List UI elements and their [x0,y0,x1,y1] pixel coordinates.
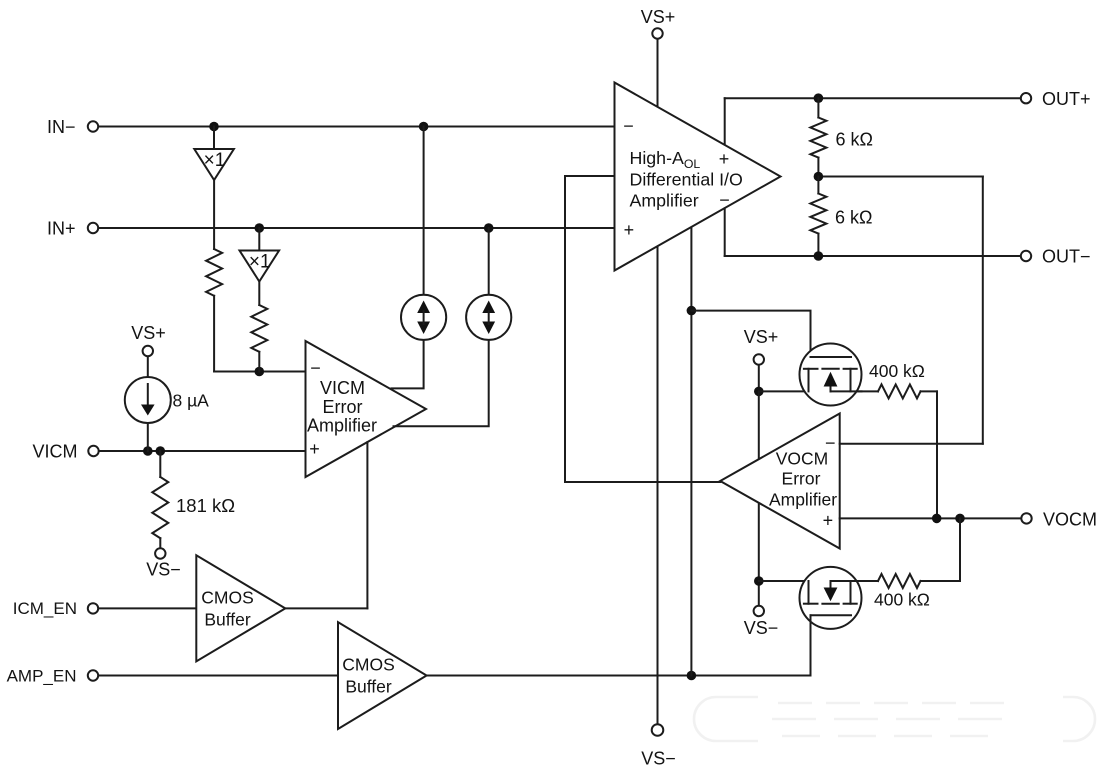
node dot IN- to current source I1 [419,122,429,132]
svg-text:IN−: IN− [47,117,76,137]
op-amp U3 VOCM Error Amplifier [720,414,840,549]
wire M2 source-drain [759,580,878,582]
wire R400a down to VOCM node [936,391,938,518]
svg-text:181 kΩ: 181 kΩ [176,495,235,516]
wire VS- lead vocm [758,581,760,606]
wire OUT- from amp [724,208,726,256]
node dot OUT- [814,251,824,261]
svg-text:ICM_EN: ICM_EN [13,599,77,618]
svg-text:Buffer: Buffer [345,677,392,697]
svg-text:CMOS: CMOS [201,588,254,608]
svg-text:−: − [623,116,634,136]
svg-text:Amplifier: Amplifier [769,490,837,510]
svg-text:400 kΩ: 400 kΩ [869,361,925,381]
svg-text:Error: Error [782,469,821,489]
wire vocm rail vertical (passes behind U3) [758,391,760,581]
svg-text:VS+: VS+ [131,323,166,343]
terminal VS+ mid [143,346,153,356]
node dot VS- / M2 wire [754,576,764,586]
wire mid node to VOCM minus [818,176,982,178]
resistor RS1 [206,249,222,296]
node dot IN- to x1 buffer [209,122,219,132]
svg-text:Buffer: Buffer [204,610,251,630]
node dot IN+ to current source I2 [484,223,494,233]
svg-text:+: + [309,439,320,459]
wire U2 out upper to I1 [392,340,424,388]
wire enable vertical [690,227,692,675]
wire I3 to VICM node [147,423,149,451]
wire gate link top mosfet [691,311,810,357]
wire VOCM feedback to main amp [565,176,720,482]
svg-text:400 kΩ: 400 kΩ [874,590,930,610]
op-amp U1 High-AOL amplifier [615,83,781,271]
resistor RS2 [251,305,267,352]
svg-text:Differential I/O: Differential I/O [630,170,743,190]
svg-text:6 kΩ: 6 kΩ [836,130,873,150]
svg-text:VS+: VS+ [744,327,779,347]
svg-text:Error: Error [323,397,363,417]
svg-text:−: − [310,358,321,378]
node dot VS+ / M1 wire [754,387,764,397]
wire VS+ lead to I3 [147,357,149,378]
wire summing node horizontal [214,371,305,373]
node dot IN+ to x1 buffer2 [254,223,264,233]
terminal ICM_EN [88,603,98,613]
svg-text:OUT−: OUT− [1042,247,1091,267]
wire VS+ lead vocm [758,365,760,391]
svg-text:OUT+: OUT+ [1042,89,1091,109]
svg-text:−: − [719,190,730,210]
svg-text:6 kΩ: 6 kΩ [835,208,872,228]
svg-text:+: + [719,149,730,169]
wire CMOS2 output to gate line [427,675,811,677]
node dot enable junction [687,671,697,681]
node dot VOCM b [955,514,965,524]
resistor RF2 6k [817,177,819,194]
buffer U5 CMOS Buffer (AMP_EN) [98,675,338,677]
node dot mid [814,172,824,182]
wire U3 minus input [840,443,983,445]
watermark faint [694,697,1095,741]
wire U3 plus input / VOCM net [840,517,1021,519]
terminal VS+ vocm [754,354,764,364]
wire RS1 to summing node [213,296,215,372]
wire RS2 to summing node [258,352,260,372]
terminal AMP_EN [88,670,98,680]
wire U2 enable from CMOS buffer1 [366,442,368,608]
wire CMOS1 output [285,607,367,609]
transistor M2 [800,567,862,629]
terminal OUT- [1021,251,1031,261]
svg-text:VS−: VS− [146,560,181,580]
svg-text:×1: ×1 [204,150,226,171]
svg-text:VOCM: VOCM [1043,510,1097,530]
current source I2 [488,228,490,295]
svg-text:VS−: VS− [744,618,779,638]
wire U2 out lower to I2 [394,340,489,426]
resistor RF1 6k [817,98,819,117]
svg-text:IN+: IN+ [47,219,76,239]
wire M1 source-drain [759,390,878,392]
wire VS+ top lead [657,39,659,106]
wire R181 to VS- [159,538,161,548]
wire IN+ horizontal [98,227,615,229]
terminal IN+ [88,223,98,233]
terminal VS- bottom [652,724,664,736]
current source I1 [423,127,425,295]
node dot VICM-181k [156,446,166,456]
wire M2 gate lead [810,615,812,675]
buffer U4 CMOS Buffer (ICM_EN) [98,607,196,609]
svg-text:×1: ×1 [249,252,271,273]
node dot summing [254,367,264,377]
resistor R181 lead [159,451,161,477]
svg-text:VICM: VICM [320,378,365,398]
svg-text:VICM: VICM [33,442,78,462]
wire R400b up to VOCM node [959,518,961,581]
svg-text:+: + [624,220,635,240]
svg-text:AMP_EN: AMP_EN [7,667,77,686]
terminal VICM [88,446,98,456]
wire IN- horizontal [98,126,615,128]
resistor R400a [878,384,920,398]
wire buffer2 input lead [258,228,260,251]
svg-text:Amplifier: Amplifier [630,191,699,211]
terminal VS- vocm [754,606,764,616]
terminal IN- [88,121,98,131]
svg-text:8 µA: 8 µA [173,391,210,411]
svg-text:VS+: VS+ [641,7,676,27]
current source I3 8uA [125,377,171,423]
wire OUT+ from amp [724,98,726,144]
node dot VICM-8uA [143,446,153,456]
wire VICM horizontal [99,450,306,452]
terminal VOCM [1021,513,1031,523]
wire buffer1 output lead [213,180,215,249]
terminal VS- mid [155,548,165,558]
svg-text:VOCM: VOCM [776,449,829,469]
wire buffer2 output lead [258,282,260,306]
wire mid vertical down [982,177,984,444]
op-amp U2 VICM Error Amplifier [306,341,427,477]
buffer A1 x1 [194,149,234,180]
resistor R181 181k [152,477,168,538]
terminal OUT+ [1021,93,1031,103]
terminal VS+ top [652,28,662,38]
svg-text:VS−: VS− [641,749,676,769]
wire buffer1 input lead [213,127,215,150]
node dot enable to mosfet gates [687,306,697,316]
buffer A2 x1 [240,251,280,282]
node dot OUT+ [814,93,824,103]
transistor M1 [800,344,862,406]
svg-text:CMOS: CMOS [342,655,395,675]
resistor R400b [878,574,920,588]
node dot VOCM a [932,514,942,524]
svg-text:+: + [823,511,834,531]
wire VS rail bottom [657,246,659,723]
svg-text:Amplifier: Amplifier [307,416,377,436]
